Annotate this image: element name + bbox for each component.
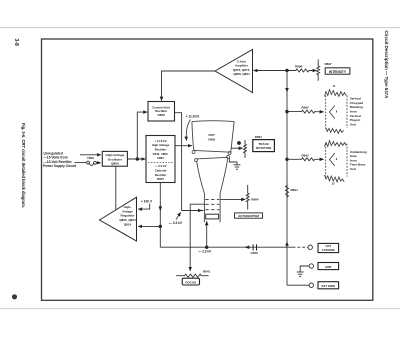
svg-text:CATHODE: CATHODE — [322, 248, 335, 252]
svg-text:Unit: Unit — [350, 122, 356, 126]
deflection blanking plates 2 — [325, 141, 348, 183]
junction dot regulator feedback — [159, 225, 162, 228]
svg-text:D837: D837 — [157, 177, 164, 181]
wire focus electrode — [190, 204, 205, 271]
svg-text:INTENSITY: INTENSITY — [329, 70, 347, 74]
wire control-grid to CRT grid — [175, 113, 204, 211]
svg-text:CRT: CRT — [326, 244, 332, 248]
svg-text:ROTATION: ROTATION — [256, 146, 271, 150]
svg-text:D869: D869 — [158, 113, 166, 117]
svg-text:R861: R861 — [255, 135, 263, 139]
junction dot R893 branch — [285, 158, 288, 161]
svg-text:C839: C839 — [251, 251, 259, 255]
potentiometer trace rotation — [244, 140, 247, 158]
wire gnd — [300, 266, 309, 272]
ground at CRT shoulder — [229, 158, 237, 164]
wire cathode supply down — [159, 183, 161, 248]
terminal gnd — [309, 264, 313, 268]
svg-text:— 3.3 kV: — 3.3 kV — [169, 221, 183, 225]
svg-text:Q883, Q894: Q883, Q894 — [233, 72, 250, 76]
trace rotation coil — [237, 141, 241, 145]
wire intensity bus to z-axis amplifier — [254, 70, 288, 72]
svg-text:R897: R897 — [325, 62, 333, 66]
svg-text:R893: R893 — [302, 153, 310, 157]
potentiometer R897 intensity — [317, 59, 320, 80]
focus control box — [182, 278, 199, 285]
bus wire vertical — [286, 71, 288, 286]
capacitor C839 — [253, 244, 254, 250]
svg-text:R864: R864 — [251, 197, 259, 201]
bus flow arrow up — [286, 242, 288, 247]
input label unregulated -15V — [43, 151, 77, 168]
terminal ext grid — [309, 283, 313, 287]
svg-text:R841: R841 — [203, 270, 211, 274]
border frame — [42, 39, 373, 300]
junction dot — [136, 157, 139, 160]
svg-text:J3: J3 — [332, 182, 335, 186]
bus flow arrow down — [286, 87, 288, 92]
svg-text:V859: V859 — [208, 138, 216, 142]
svg-text:R892: R892 — [302, 106, 310, 110]
wire feedback to control-grid rectifier — [137, 112, 147, 159]
intensity control box — [325, 68, 350, 74]
dashed wire to cathode terminal — [293, 246, 308, 248]
trace rotation control box — [253, 140, 275, 152]
potentiometer R841 focus — [176, 274, 209, 277]
cathode flow arrow down — [159, 206, 161, 211]
block high-voltage oscillator — [102, 151, 127, 166]
astigmatism control box — [235, 213, 263, 218]
wire astigmatism electrode — [221, 198, 246, 200]
terminal crt cathode — [308, 245, 312, 249]
svg-text:Circuit Description — Type 647: Circuit Description — Type 647A — [384, 31, 389, 100]
block hv rectifier / cathode rectifier — [146, 136, 175, 183]
potentiometer R864 astigmatism — [246, 185, 249, 210]
svg-text:CRT: CRT — [208, 133, 214, 137]
svg-text:GND: GND — [325, 265, 331, 269]
junction dot crt cathode neck — [205, 246, 208, 249]
wire anode from rectifier to CRT — [175, 145, 192, 147]
label vertical chopped blanking — [350, 97, 364, 127]
op-amp z-axis amplifier — [215, 50, 253, 93]
svg-text:Q800: Q800 — [111, 161, 119, 165]
CRT V859 envelope — [192, 121, 234, 223]
wire oscillator to regulator — [115, 166, 117, 210]
svg-text:ASTIGMATISM: ASTIGMATISM — [238, 214, 259, 218]
wire trace rotation — [231, 147, 243, 149]
wire unregulated bottom — [75, 162, 87, 164]
page edge bottom — [0, 308, 400, 310]
op-amp high-voltage regulator — [100, 197, 137, 241]
svg-text:3-8: 3-8 — [13, 39, 19, 46]
svg-text:T800: T800 — [87, 156, 94, 160]
svg-text:Unit: Unit — [350, 167, 356, 171]
CRT label — [208, 133, 216, 141]
junction dot R892 branch — [285, 110, 288, 113]
CRT cathode box — [206, 214, 219, 219]
CRT shoulder pins — [192, 151, 231, 162]
svg-text:J1: J1 — [333, 84, 336, 88]
junction dot — [285, 69, 288, 72]
svg-text:Fig. 3-6. CRT circuit detailed: Fig. 3-6. CRT circuit detailed block dia… — [21, 123, 26, 208]
deflection blanking plates 1 — [325, 90, 348, 134]
svg-text:R894: R894 — [291, 188, 299, 192]
wire unregulated top — [80, 154, 101, 156]
wire to hv regulator — [138, 225, 160, 227]
wire z-axis amp to control-grid rectifier — [162, 71, 216, 101]
svg-text:FOCUS: FOCUS — [185, 280, 196, 284]
svg-text:R896: R896 — [295, 65, 303, 69]
svg-text:+ 11.8 kV: + 11.8 kV — [186, 115, 200, 119]
cathode bus flow arrow left — [245, 246, 249, 248]
wire oscillator output — [127, 158, 145, 160]
svg-text:— 2.3 kV: — 2.3 kV — [198, 250, 212, 254]
thermal cutout T800 — [87, 161, 101, 165]
CRT gun grid dashes — [205, 199, 219, 209]
ground symbol gnd terminal — [297, 272, 304, 276]
svg-text:Q814: Q814 — [124, 222, 132, 226]
svg-text:Power Supply Circuit: Power Supply Circuit — [43, 164, 77, 168]
printer mark — [12, 294, 17, 299]
label unblanking gate — [350, 150, 367, 171]
wire neck cathode down — [206, 221, 208, 247]
block control-grid rectifier — [148, 102, 175, 122]
wire cathode bus horizontal — [160, 246, 292, 248]
page edge top — [0, 27, 400, 29]
svg-text:EXT GRID: EXT GRID — [321, 284, 335, 288]
wire ext grid to bus — [287, 284, 309, 286]
svg-text:+ 100 V: + 100 V — [141, 199, 153, 203]
svg-text:V862: V862 — [157, 156, 164, 160]
